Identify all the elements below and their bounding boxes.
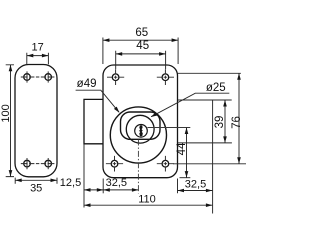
svg-text:39: 39 <box>214 116 226 129</box>
dim 76 arrows <box>237 73 241 80</box>
dim 76 bottom extension <box>173 163 246 165</box>
d49 label underline and leader <box>76 90 119 112</box>
cylinder circle d25 <box>126 115 154 143</box>
vertical centre line <box>137 140 139 194</box>
dim 45 arrows <box>116 52 123 56</box>
horizontal centre line <box>147 127 190 129</box>
dim 39 bottom extension <box>178 142 232 144</box>
bolt tip extension line <box>83 144 85 208</box>
dim 32,5 right arrows <box>178 189 185 193</box>
dimension texts <box>0 27 243 205</box>
d25 leader arrow <box>151 112 158 117</box>
plate holes crosshairs <box>21 71 55 169</box>
dim 39 line <box>224 100 226 143</box>
plate hole top-right <box>45 74 52 81</box>
plate hole top-left <box>24 74 31 81</box>
svg-text:ø25: ø25 <box>206 82 226 94</box>
dim 39 arrows <box>223 100 227 107</box>
dim 100 extension ticks <box>6 65 14 177</box>
d25 label underline and leader <box>151 93 229 117</box>
plate hole bottom-left <box>24 160 31 167</box>
lock body outline <box>103 65 178 178</box>
dim 76 line <box>238 73 240 164</box>
svg-text:12,5: 12,5 <box>60 177 81 189</box>
body hole bottom-right <box>162 160 169 167</box>
body hole top-right <box>162 74 169 81</box>
dim row 12,5 and 32,5 line <box>84 189 138 191</box>
arrowheads <box>9 38 241 207</box>
svg-text:35: 35 <box>30 183 42 195</box>
dim 110 line <box>84 204 212 206</box>
dim 35 arrows <box>15 179 22 183</box>
dim 65 extension lines <box>103 38 178 65</box>
dim 76 top extension <box>178 72 241 74</box>
dim 17 line <box>27 55 49 57</box>
svg-text:44: 44 <box>176 142 188 155</box>
phantom bolt tip right extension <box>212 100 214 213</box>
svg-text:45: 45 <box>136 40 149 52</box>
dim 100 line <box>10 65 12 177</box>
svg-text:76: 76 <box>231 116 243 129</box>
dim 100 arrows <box>9 65 13 72</box>
dim row right 32,5 line <box>178 190 213 192</box>
dim 65 arrows <box>103 38 110 42</box>
dim 39 top extension <box>178 99 232 101</box>
dim 35 extension lines <box>15 178 57 184</box>
svg-text:ø49: ø49 <box>77 78 97 90</box>
svg-text:32,5: 32,5 <box>106 177 127 189</box>
d49 leader arrow <box>114 107 120 113</box>
dim 45 extension lines <box>116 51 166 70</box>
svg-text:17: 17 <box>31 42 43 54</box>
svg-text:110: 110 <box>138 193 156 205</box>
dim 44 bottom extension <box>180 177 191 179</box>
dim 110 arrows <box>84 203 91 207</box>
dim 17 arrows <box>27 54 34 58</box>
dim 44 arrows <box>185 128 189 135</box>
svg-text:65: 65 <box>135 27 148 39</box>
svg-text:32,5: 32,5 <box>185 178 206 190</box>
strike plate outline <box>15 65 57 177</box>
cylinder housing square <box>121 112 161 139</box>
dim 32,5 left arrows <box>103 188 110 192</box>
body right edge extension <box>177 179 179 194</box>
bolt side view <box>84 99 103 143</box>
body left edge extension <box>102 179 104 194</box>
keyway slot <box>139 125 143 136</box>
dim 17 extension lines <box>27 53 49 65</box>
key plug circle <box>135 125 148 138</box>
dim 45 line <box>116 53 166 55</box>
body hole bottom-left <box>111 160 118 167</box>
svg-text:100: 100 <box>0 104 12 122</box>
rose circle d49 <box>110 107 166 163</box>
dim 35 line <box>15 179 57 181</box>
dim 44 line <box>186 128 188 178</box>
plate hole bottom-right <box>45 160 52 167</box>
dim 12,5 arrows <box>84 188 91 192</box>
dim 65 line <box>103 39 178 41</box>
body holes crosshairs <box>106 69 174 171</box>
body hole top-left <box>112 74 119 81</box>
